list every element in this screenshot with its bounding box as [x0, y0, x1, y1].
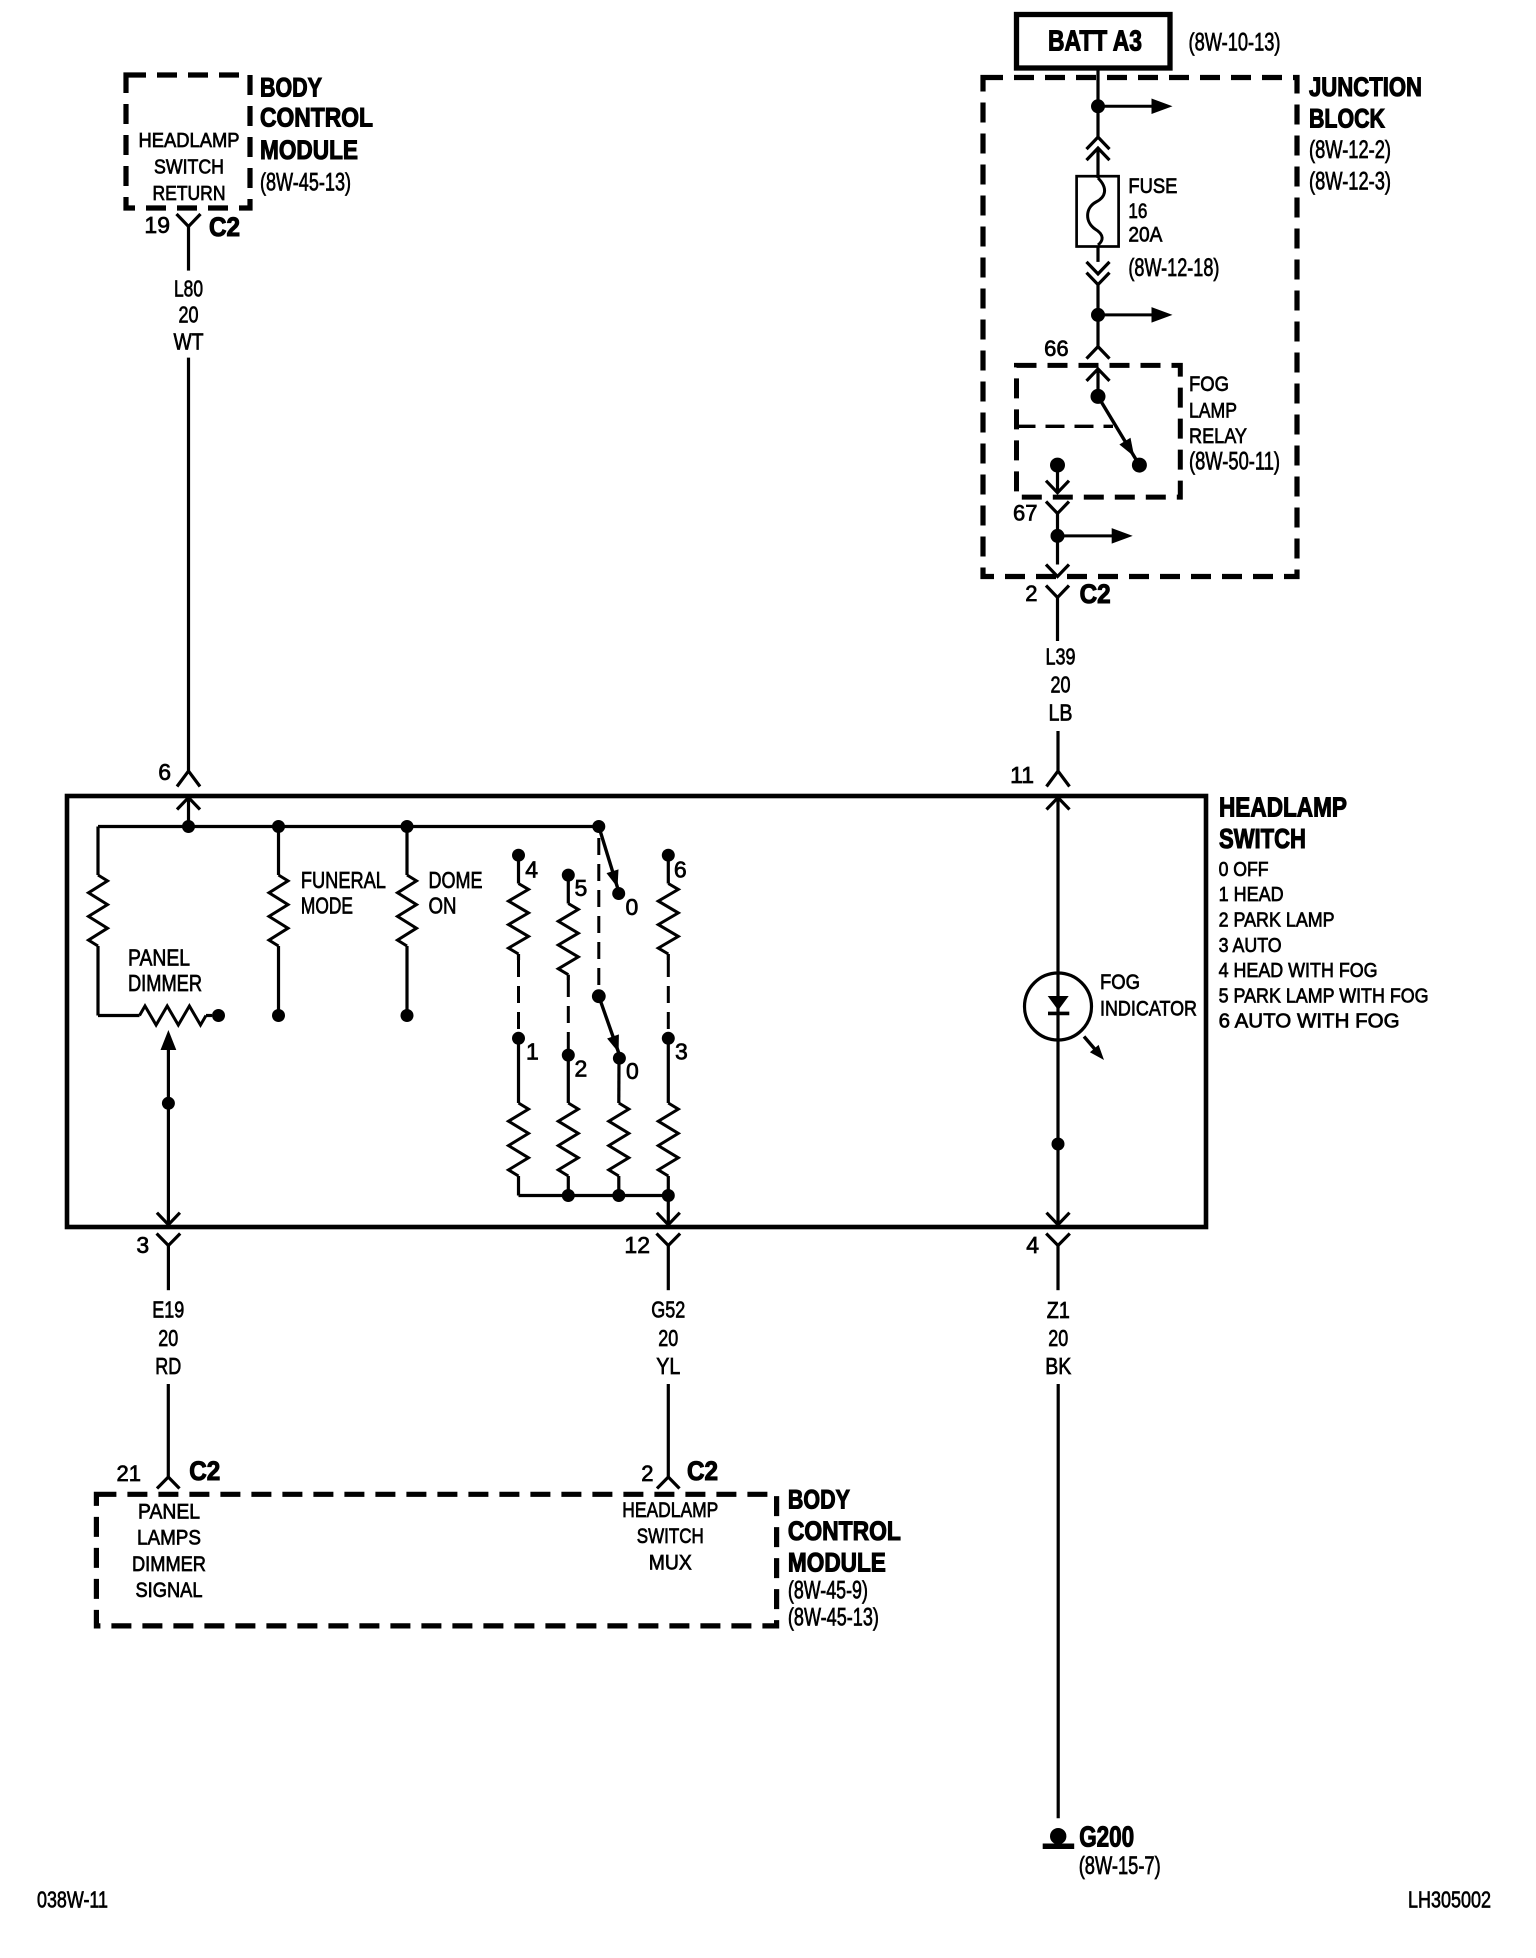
svg-text:RELAY: RELAY — [1189, 424, 1247, 448]
svg-text:HEADLAMP: HEADLAMP — [1219, 792, 1347, 823]
svg-text:C2: C2 — [687, 1456, 718, 1486]
svg-text:20: 20 — [158, 1325, 178, 1351]
svg-text:LAMP: LAMP — [1189, 399, 1237, 423]
svg-text:C2: C2 — [189, 1456, 220, 1486]
svg-text:2: 2 — [1025, 581, 1037, 606]
svg-text:16: 16 — [1128, 199, 1147, 223]
svg-text:11: 11 — [1010, 762, 1034, 788]
svg-text:5: 5 — [575, 875, 588, 901]
svg-text:20: 20 — [179, 302, 199, 328]
svg-text:C2: C2 — [1080, 579, 1111, 609]
svg-text:FUSE: FUSE — [1128, 174, 1177, 198]
svg-text:6: 6 — [158, 759, 171, 785]
svg-text:G52: G52 — [651, 1297, 685, 1323]
svg-text:2: 2 — [575, 1056, 588, 1082]
svg-text:(8W-45-13): (8W-45-13) — [260, 169, 351, 197]
svg-text:20: 20 — [1048, 1325, 1068, 1351]
svg-text:4: 4 — [1026, 1232, 1039, 1258]
svg-text:(8W-12-3): (8W-12-3) — [1309, 168, 1391, 196]
svg-text:SWITCH: SWITCH — [1219, 823, 1306, 854]
svg-text:E19: E19 — [152, 1297, 184, 1323]
svg-text:5 PARK LAMP WITH FOG: 5 PARK LAMP WITH FOG — [1219, 984, 1429, 1007]
svg-text:20: 20 — [1051, 672, 1071, 698]
svg-text:CONTROL: CONTROL — [788, 1516, 901, 1546]
svg-text:0: 0 — [626, 894, 639, 920]
svg-text:L39: L39 — [1046, 643, 1076, 669]
svg-text:DIMMER: DIMMER — [132, 1553, 206, 1576]
svg-text:LAMPS: LAMPS — [137, 1527, 201, 1550]
svg-text:LH305002: LH305002 — [1408, 1886, 1491, 1912]
svg-text:INDICATOR: INDICATOR — [1100, 996, 1197, 1020]
svg-text:(8W-45-9): (8W-45-9) — [788, 1577, 868, 1605]
svg-text:PANEL: PANEL — [138, 1500, 200, 1523]
svg-text:BK: BK — [1045, 1353, 1072, 1379]
svg-text:MUX: MUX — [649, 1551, 692, 1574]
svg-text:3: 3 — [675, 1039, 688, 1065]
svg-text:6 AUTO WITH FOG: 6 AUTO WITH FOG — [1219, 1010, 1400, 1033]
svg-text:MODULE: MODULE — [260, 135, 358, 165]
svg-text:1: 1 — [526, 1039, 539, 1065]
svg-text:(8W-15-7): (8W-15-7) — [1079, 1852, 1161, 1880]
svg-text:MODULE: MODULE — [788, 1548, 886, 1578]
svg-text:(8W-10-13): (8W-10-13) — [1189, 29, 1281, 57]
svg-text:1 HEAD: 1 HEAD — [1219, 883, 1284, 906]
svg-text:21: 21 — [117, 1461, 141, 1486]
svg-text:SWITCH: SWITCH — [637, 1525, 704, 1548]
svg-text:ON: ON — [429, 892, 457, 918]
svg-text:2: 2 — [641, 1461, 653, 1486]
svg-text:BODY: BODY — [788, 1484, 850, 1514]
svg-text:FOG: FOG — [1100, 970, 1140, 994]
svg-text:C2: C2 — [209, 212, 240, 242]
svg-text:SWITCH: SWITCH — [154, 157, 224, 179]
svg-text:67: 67 — [1013, 500, 1037, 525]
svg-text:RD: RD — [155, 1353, 181, 1379]
svg-text:FUNERAL: FUNERAL — [301, 867, 386, 893]
svg-text:RETURN: RETURN — [153, 183, 226, 205]
svg-text:PANEL: PANEL — [128, 944, 190, 970]
svg-text:DOME: DOME — [429, 867, 483, 893]
svg-text:LB: LB — [1049, 700, 1073, 726]
svg-text:(8W-50-11): (8W-50-11) — [1189, 448, 1280, 476]
svg-text:DIMMER: DIMMER — [128, 970, 202, 996]
svg-text:FOG: FOG — [1189, 372, 1229, 396]
svg-text:YL: YL — [656, 1353, 680, 1379]
svg-text:BODY: BODY — [260, 72, 322, 102]
svg-text:JUNCTION: JUNCTION — [1309, 72, 1422, 102]
svg-text:G200: G200 — [1079, 1821, 1134, 1853]
svg-text:(8W-12-18): (8W-12-18) — [1128, 254, 1219, 282]
svg-text:HEADLAMP: HEADLAMP — [139, 130, 240, 152]
svg-text:2 PARK LAMP: 2 PARK LAMP — [1219, 909, 1335, 932]
svg-text:19: 19 — [144, 212, 170, 238]
svg-text:CONTROL: CONTROL — [260, 103, 373, 133]
svg-text:WT: WT — [174, 328, 204, 354]
svg-text:4: 4 — [525, 856, 538, 882]
svg-text:66: 66 — [1044, 336, 1068, 361]
svg-text:(8W-45-13): (8W-45-13) — [788, 1604, 879, 1632]
svg-text:L80: L80 — [174, 276, 203, 302]
svg-text:0: 0 — [626, 1058, 639, 1084]
svg-text:MODE: MODE — [301, 892, 353, 918]
svg-text:6: 6 — [674, 856, 687, 882]
svg-text:4 HEAD WITH FOG: 4 HEAD WITH FOG — [1219, 959, 1378, 982]
svg-text:BATT A3: BATT A3 — [1048, 26, 1142, 58]
svg-text:3: 3 — [136, 1232, 149, 1258]
svg-text:Z1: Z1 — [1047, 1297, 1070, 1323]
svg-text:3 AUTO: 3 AUTO — [1219, 934, 1282, 957]
svg-text:(8W-12-2): (8W-12-2) — [1309, 136, 1391, 164]
svg-text:20A: 20A — [1128, 223, 1163, 247]
svg-text:038W-11: 038W-11 — [37, 1886, 108, 1912]
svg-text:20: 20 — [658, 1325, 678, 1351]
svg-text:SIGNAL: SIGNAL — [136, 1579, 203, 1602]
svg-text:0 OFF: 0 OFF — [1219, 858, 1269, 881]
svg-text:12: 12 — [624, 1232, 650, 1258]
svg-text:HEADLAMP: HEADLAMP — [622, 1499, 718, 1522]
svg-text:BLOCK: BLOCK — [1309, 104, 1385, 134]
